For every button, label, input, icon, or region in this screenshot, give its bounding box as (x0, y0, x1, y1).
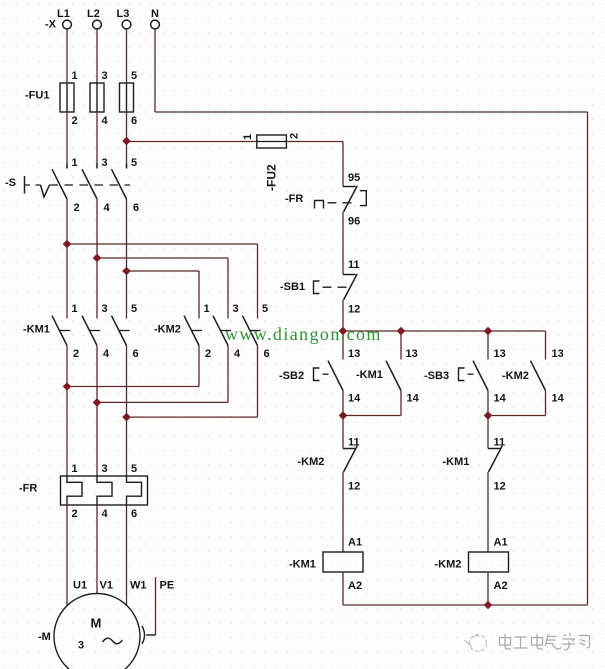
KM2 NC interlock contact 11/12 (343, 437, 360, 493)
terminal N (151, 8, 160, 29)
fuse FU1 pole pins 1/2 (60, 70, 78, 127)
node L3 branch to KM2 (122, 267, 131, 276)
svg-text:13: 13 (348, 348, 360, 360)
svg-text:2: 2 (73, 348, 79, 360)
FR NC contact 95/96 (343, 172, 366, 228)
wire KM1NC to KM2 coil (487, 472, 489, 552)
thermal relay FR body (61, 476, 148, 505)
svg-text:3: 3 (102, 303, 108, 315)
wire KM2 pole2 to L1 line (198, 346, 200, 387)
KM1 main contact pins 1/2 (52, 303, 79, 360)
wire SB2 to merge node (342, 391, 344, 416)
svg-text:A1: A1 (348, 537, 362, 549)
svg-text:11: 11 (494, 437, 506, 449)
svg-text:12: 12 (348, 304, 360, 316)
node rung at KM1 aux (397, 327, 406, 336)
svg-text:6: 6 (133, 202, 139, 214)
wire FU1 to switch S pole 1 (66, 112, 68, 169)
wire N right rail down (587, 112, 589, 605)
wire rung to SB3 (487, 331, 489, 360)
PE wire (155, 577, 157, 635)
svg-text:-KM2: -KM2 (502, 370, 529, 382)
svg-text:-SB2: -SB2 (279, 370, 304, 382)
svg-text:-M: -M (38, 631, 51, 643)
svg-text:5: 5 (131, 303, 137, 315)
wire SB3 to merge node (487, 391, 489, 416)
rung wire horizontal (343, 330, 546, 332)
switch -S linkage dashes right (50, 184, 131, 186)
node KM2 pole4 join L2 (93, 398, 102, 407)
wire S pole6 to KM1 pole5 (126, 199, 128, 319)
switch S pole pins 1/2 (52, 157, 80, 214)
svg-text:96: 96 (348, 216, 360, 228)
SB2 button actuator (314, 368, 320, 381)
svg-text:W1: W1 (130, 580, 147, 592)
KM1 NC interlock contact 11/12 (488, 437, 506, 493)
svg-text:-KM1: -KM1 (289, 559, 316, 571)
svg-text:5: 5 (131, 157, 137, 169)
KM1 auxiliary NO contact 13/14 (386, 348, 420, 405)
wire rung to KM1 aux (400, 331, 402, 360)
FR heater element pins 5/6 (127, 463, 142, 520)
svg-text:3: 3 (102, 463, 108, 475)
wire KM1 pole4 down to FR pole3 (96, 346, 98, 477)
terminal L2 (87, 8, 101, 29)
bottom rail wire (343, 604, 588, 606)
wire S pole2 to KM1 pole1 (66, 199, 68, 319)
svg-text:3: 3 (233, 303, 239, 315)
wire SB1 to rung node (342, 300, 344, 331)
KM1 main contact pins 5/6 (112, 303, 139, 360)
KM2 main contact pins 1/2 (184, 303, 211, 360)
svg-text:6: 6 (133, 348, 139, 360)
svg-text:-KM1: -KM1 (356, 369, 383, 381)
svg-text:-KM2: -KM2 (435, 559, 462, 571)
wire KM1 pole6 down to FR pole5 (126, 346, 128, 477)
wire L1 terminal to FU1 (66, 29, 68, 83)
contactor coil -KM1 A1/A2 (323, 537, 363, 593)
wire branch L1 to KM2 pole 5 (67, 243, 258, 245)
wire to KM2 NC interlock (342, 416, 344, 449)
wire FU1 to switch S pole 5 (126, 112, 128, 169)
svg-text:-FU2: -FU2 (265, 164, 279, 191)
wire KM2 coil to bottom rail (487, 572, 489, 605)
merge wire SB2/KM1aux (343, 415, 401, 417)
fuse FU1 pole pins 3/4 (90, 70, 109, 127)
svg-text:L3: L3 (117, 8, 130, 20)
node rung at SB2 (339, 327, 348, 336)
svg-text:6: 6 (131, 115, 137, 127)
svg-text:-SB3: -SB3 (424, 370, 449, 382)
svg-text:6: 6 (131, 508, 137, 520)
SB3 button actuator (459, 368, 465, 381)
svg-text:5: 5 (131, 70, 137, 82)
SB1 linkage dashes (323, 286, 349, 288)
svg-text:4: 4 (102, 508, 109, 520)
pushbutton -SB1 NC contact 11/12 (343, 259, 360, 316)
wire branch L2 to KM2 pole 3 (97, 257, 228, 259)
svg-text:3: 3 (78, 640, 84, 652)
svg-text:1: 1 (204, 303, 210, 315)
svg-text:1: 1 (72, 463, 78, 475)
svg-text:-KM2: -KM2 (298, 456, 325, 468)
SB1 button actuator (314, 281, 320, 294)
node rung at SB3 (484, 327, 493, 336)
svg-text:14: 14 (494, 393, 507, 405)
SB2 linkage dashes (323, 373, 334, 375)
logo icon sketch (465, 635, 487, 652)
wire to KM1 NC interlock (487, 416, 489, 449)
node KM2 coil to bottom rail (484, 601, 493, 610)
terminal L3 (117, 8, 131, 29)
svg-text:L1: L1 (57, 8, 70, 20)
KM2 auxiliary NO contact 13/14 (531, 348, 565, 405)
wire FU2 to control branch corner (286, 141, 343, 143)
svg-text:11: 11 (348, 437, 360, 449)
switch -S actuator bar (24, 176, 26, 194)
wire KM1 coil to bottom rail (342, 572, 344, 605)
svg-text:12: 12 (494, 481, 506, 493)
fuse FU1 pole pins 5/6 (120, 70, 138, 127)
wire FR pole4 to motor V1 (96, 505, 98, 594)
svg-text:-FR: -FR (19, 483, 37, 495)
svg-text:95: 95 (348, 172, 360, 184)
wire KM2NC to KM1 coil (342, 472, 344, 552)
svg-text:1: 1 (72, 70, 78, 82)
switch -S linkage dashes left (25, 184, 41, 186)
svg-text:2: 2 (74, 202, 80, 214)
svg-text:1: 1 (72, 157, 78, 169)
SB3 linkage dashes (468, 373, 479, 375)
svg-text:N: N (151, 8, 159, 20)
KM2 main contact pins 3/4 (213, 303, 241, 360)
svg-text:4: 4 (103, 348, 110, 360)
wire FU1 to switch S pole 3 (96, 112, 98, 169)
svg-text:V1: V1 (100, 580, 113, 592)
svg-text:4: 4 (234, 348, 241, 360)
pushbutton -SB3 NO contact 13/14 (473, 348, 507, 405)
PE frame connection arc (142, 626, 145, 644)
svg-text:4: 4 (104, 202, 111, 214)
wire branch L3 to KM2 pole 1 (127, 270, 200, 272)
svg-text:www.diangon.com: www.diangon.com (225, 324, 382, 344)
wire branch L3 to FU2 (127, 141, 257, 143)
FR trip actuator symbol (315, 201, 324, 209)
node SB2/KM1aux merge (339, 411, 348, 420)
svg-text:14: 14 (348, 393, 361, 405)
svg-text:13: 13 (494, 348, 506, 360)
svg-text:3: 3 (102, 70, 108, 82)
svg-text:-FU1: -FU1 (25, 90, 49, 102)
wire N terminal down (154, 29, 156, 112)
switch S pole pins 3/4 (82, 157, 111, 214)
wire KM2 pole6 to L3 line (257, 346, 259, 418)
motor M circle (54, 594, 140, 669)
svg-text:14: 14 (407, 393, 420, 405)
wire KM2 pole4 to L2 line (227, 346, 229, 403)
wire rung to SB2 (342, 331, 344, 360)
svg-text:-FR: -FR (285, 193, 303, 205)
wire rung corner to KM2 aux (545, 331, 547, 360)
svg-text:2: 2 (72, 115, 78, 127)
FR linkage dashes (328, 202, 353, 204)
wire KM2 aux down (545, 391, 547, 416)
svg-text:A2: A2 (348, 580, 362, 592)
switch -S handle V symbol (41, 185, 50, 197)
node SB3/KM2aux merge (484, 411, 493, 420)
logo text 电工电气学习 (500, 634, 590, 650)
KM1 main contact pins 3/4 (82, 303, 110, 360)
wire FR96 to SB1 (342, 212, 344, 275)
KM2 main contact pins 5/6 (243, 303, 270, 360)
fuse -FU2 body (257, 135, 287, 148)
svg-text:A2: A2 (494, 580, 508, 592)
svg-text:2: 2 (205, 348, 211, 360)
wire S pole4 to KM1 pole3 (96, 199, 98, 319)
svg-text:-S: -S (5, 177, 16, 189)
merge wire SB3/KM2aux (488, 415, 546, 417)
svg-text:-X: -X (45, 19, 57, 31)
svg-text:-KM2: -KM2 (154, 324, 181, 336)
FR heater element pins 3/4 (97, 463, 112, 520)
svg-text:-SB1: -SB1 (280, 281, 305, 293)
svg-text:5: 5 (262, 303, 268, 315)
switch S pole pins 5/6 (112, 157, 140, 214)
svg-text:12: 12 (348, 481, 360, 493)
wire KM1 aux down (400, 391, 402, 416)
svg-text:M: M (91, 616, 102, 631)
svg-text:U1: U1 (73, 580, 87, 592)
pushbutton -SB2 NO contact 13/14 (328, 348, 361, 405)
svg-text:13: 13 (406, 348, 418, 360)
wire L2 terminal to FU1 (96, 29, 98, 83)
svg-text:2: 2 (72, 508, 78, 520)
node L1 branch to KM2 (63, 240, 72, 249)
svg-text:L2: L2 (87, 8, 100, 20)
svg-text:13: 13 (552, 348, 564, 360)
svg-text:6: 6 (264, 348, 270, 360)
svg-text:-KM1: -KM1 (23, 324, 50, 336)
node L2 branch to KM2 (93, 254, 102, 263)
wire N horizontal to right rail (155, 111, 588, 113)
wire FR pole6 to motor W1 (126, 505, 128, 605)
node L3/FU2 branch (122, 137, 131, 146)
wire L3 terminal to FU1 (126, 29, 128, 83)
FR heater element pins 1/2 (67, 463, 82, 520)
svg-text:1: 1 (72, 303, 78, 315)
svg-text:11: 11 (348, 259, 360, 271)
svg-text:PE: PE (160, 580, 175, 592)
svg-text:A1: A1 (494, 537, 508, 549)
contactor coil -KM2 A1/A2 (469, 537, 509, 593)
svg-text:4: 4 (102, 115, 109, 127)
terminal L1 (57, 8, 71, 29)
svg-text:2: 2 (289, 133, 301, 139)
svg-text:5: 5 (131, 463, 137, 475)
node KM2 pole2 join L1 (63, 382, 72, 391)
svg-text:3: 3 (102, 157, 108, 169)
svg-text:1: 1 (242, 134, 254, 140)
wire FR pole2 to motor U1 (66, 505, 68, 606)
wire KM1 pole2 down to FR pole1 (66, 346, 68, 477)
node KM2 pole6 join L3 (122, 413, 131, 422)
svg-text:-KM1: -KM1 (443, 456, 470, 468)
svg-text:14: 14 (552, 393, 565, 405)
